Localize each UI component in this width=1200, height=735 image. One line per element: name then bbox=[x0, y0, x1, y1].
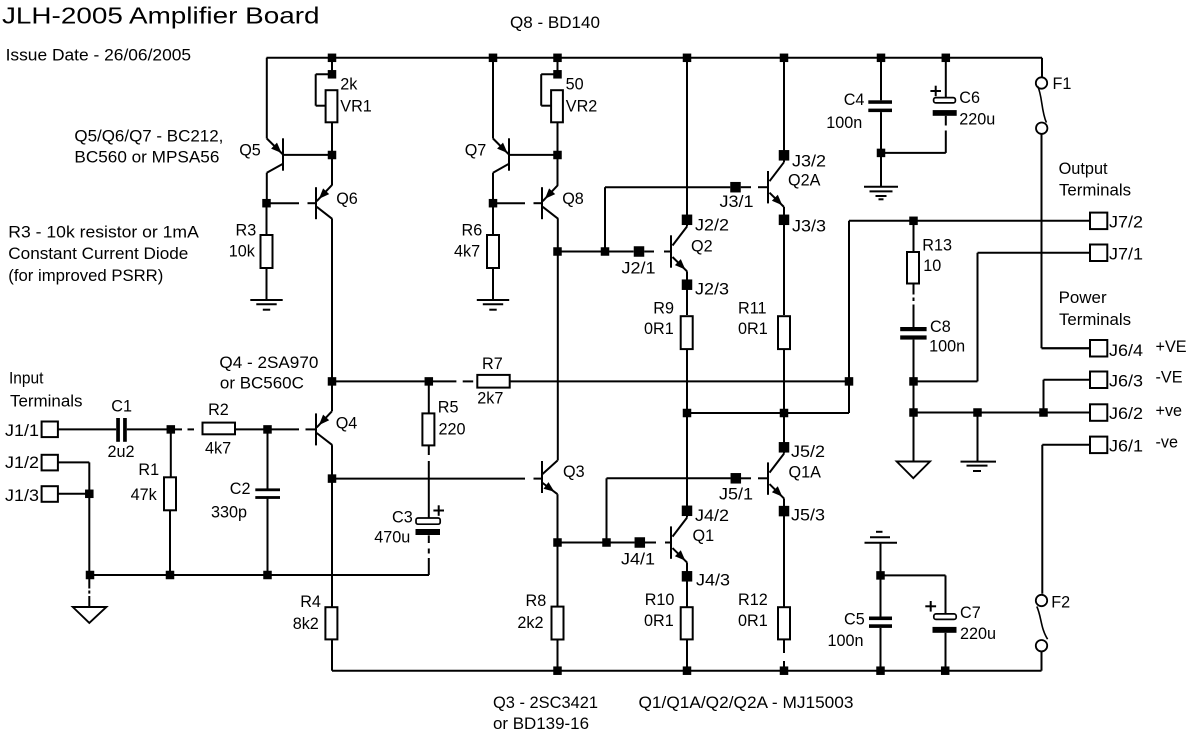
wire C1 to R1 node bbox=[127, 428, 171, 430]
svg-text:100n: 100n bbox=[929, 338, 965, 356]
fuse F2 bottom circle bbox=[1036, 640, 1047, 651]
label VR2 value 50 bbox=[566, 75, 584, 93]
junction on top rail at VR2 top bbox=[553, 54, 562, 63]
junction on top rail at Q2 collector bbox=[683, 54, 692, 63]
svg-text:VR1: VR1 bbox=[340, 97, 372, 115]
capacitor C4 plates bbox=[868, 100, 892, 112]
svg-text:50: 50 bbox=[566, 75, 584, 93]
wire J3/1 to Q2A base segments bbox=[741, 186, 768, 188]
label R4 value 8k2 bbox=[293, 615, 319, 633]
resistor R8 body bbox=[552, 607, 564, 640]
wire output row to J4/2 bbox=[686, 413, 688, 518]
node bottom rail junction under C7 bbox=[941, 666, 950, 675]
pin pad J3/1 bbox=[730, 182, 741, 193]
node drive node junction at Q2 base row bbox=[553, 247, 562, 256]
svg-text:Constant Current Diode: Constant Current Diode bbox=[8, 245, 188, 263]
label J4/2 bbox=[695, 507, 729, 525]
label R8 bbox=[526, 592, 547, 610]
wire Q4 collector down to Q3 base node bbox=[331, 445, 333, 479]
ground under R6 bbox=[477, 300, 509, 310]
note Q8 type bbox=[510, 14, 600, 32]
svg-text:J6/3: J6/3 bbox=[1109, 373, 1143, 391]
wire ground stub segments bbox=[88, 575, 90, 607]
svg-text:J4/1: J4/1 bbox=[621, 551, 655, 569]
svg-text:J2/1: J2/1 bbox=[622, 260, 656, 278]
svg-text:J3/1: J3/1 bbox=[720, 193, 754, 211]
wire C2 node to Q4 base segments bbox=[268, 428, 317, 430]
svg-text:0R1: 0R1 bbox=[738, 320, 768, 338]
wire Q2 emitter to J2/3 bbox=[686, 271, 688, 315]
wire J6/1 row and riser to F2 bbox=[1042, 445, 1090, 594]
node J2-row / Q2A-base-column junction bbox=[601, 247, 610, 256]
svg-text:J6/2: J6/2 bbox=[1109, 405, 1143, 423]
svg-text:J3/3: J3/3 bbox=[792, 218, 826, 236]
wire J5/3 to R12 bbox=[783, 515, 785, 607]
svg-text:10: 10 bbox=[923, 257, 941, 275]
wire Q1 base row bbox=[607, 542, 635, 544]
label -VE bbox=[1156, 369, 1183, 387]
svg-text:R8: R8 bbox=[526, 592, 547, 610]
label R7 bbox=[482, 355, 503, 373]
wire C8 to ground node bbox=[913, 340, 915, 462]
label J5/1 bbox=[719, 486, 753, 504]
fuse F1 element bbox=[1038, 86, 1047, 122]
wire input ground riser bbox=[88, 462, 90, 575]
capacitor C2 plates bbox=[255, 488, 280, 499]
note Q3 type line2 bbox=[493, 715, 589, 733]
capacitor C6 plus sign bbox=[930, 86, 941, 97]
wire J1/2 to ground riser bbox=[58, 461, 89, 463]
transistor Q3 body bbox=[542, 461, 558, 495]
capacitor C3 plus sign bbox=[433, 505, 444, 516]
resistor R9 body bbox=[681, 316, 693, 349]
label C1 value 2u2 bbox=[108, 443, 135, 461]
wire Q3 base row bbox=[332, 478, 542, 480]
terminal square J6/4 bbox=[1090, 340, 1107, 357]
wire output row to J5/2 bbox=[783, 413, 785, 454]
fuse F1 bottom circle bbox=[1036, 123, 1047, 134]
svg-text:J7/2: J7/2 bbox=[1109, 214, 1143, 232]
wire J5/1 to Q1A base segments bbox=[741, 477, 768, 479]
label C7 bbox=[960, 604, 981, 622]
svg-text:220: 220 bbox=[439, 420, 466, 438]
svg-text:Q6: Q6 bbox=[336, 190, 358, 208]
wire Q6 collector down to R7 node bbox=[331, 219, 333, 382]
capacitor C8 plates bbox=[900, 327, 926, 340]
wire signal ground bus bbox=[90, 574, 430, 576]
label J4/1 bbox=[621, 551, 655, 569]
svg-text:Output: Output bbox=[1059, 160, 1108, 178]
wire small ground stub bbox=[977, 413, 979, 462]
wire C5 top stub bbox=[880, 575, 882, 616]
ground input earth triangle bbox=[73, 607, 107, 623]
note output transistors type bbox=[639, 694, 854, 712]
wire Q1A emitter to J5/3 bbox=[783, 498, 785, 515]
label R9 bbox=[653, 300, 674, 318]
svg-text:Q2: Q2 bbox=[691, 238, 713, 256]
label C8 bbox=[930, 318, 951, 336]
label R10 value 0R1 bbox=[644, 612, 674, 630]
resistor R5 body bbox=[422, 413, 434, 445]
junction on top rail at C4 top bbox=[877, 54, 886, 63]
pin pad J3/3 bbox=[779, 215, 790, 226]
svg-text:J5/1: J5/1 bbox=[719, 486, 753, 504]
terminal square J7/2 bbox=[1090, 213, 1107, 230]
label Q2 bbox=[691, 238, 713, 256]
node VR2 wiper junction bbox=[553, 70, 562, 79]
note R3 line2 bbox=[8, 245, 188, 263]
label Q6 bbox=[336, 190, 358, 208]
transistor Q7 body bbox=[493, 138, 509, 172]
svg-text:J5/2: J5/2 bbox=[791, 443, 825, 461]
node C1 / R1 junction bbox=[167, 425, 176, 434]
capacitor C7 plus sign bbox=[925, 601, 936, 612]
svg-text:J1/3: J1/3 bbox=[5, 487, 39, 505]
resistor R12 body bbox=[778, 607, 790, 639]
junction on top rail at VR1 top bbox=[328, 54, 337, 63]
svg-text:R3 - 10k resistor or 1mA: R3 - 10k resistor or 1mA bbox=[8, 224, 199, 242]
wire -V bottom rail bbox=[332, 670, 1042, 672]
label R3 value 10k bbox=[229, 243, 256, 261]
label J5/2 bbox=[791, 443, 825, 461]
label R7 value 2k7 bbox=[477, 389, 503, 407]
wire R5 to C3 segments bbox=[428, 445, 430, 518]
svg-text:R11: R11 bbox=[738, 300, 767, 318]
svg-text:R9: R9 bbox=[653, 300, 674, 318]
pin pad J4/1 bbox=[635, 537, 646, 548]
label F1 bbox=[1053, 75, 1072, 93]
svg-text:2k7: 2k7 bbox=[477, 389, 503, 407]
capacitor C3 bottom plate bbox=[416, 529, 441, 535]
svg-text:0R1: 0R1 bbox=[644, 612, 674, 630]
svg-text:+VE: +VE bbox=[1156, 338, 1187, 356]
svg-text:Q8 - BD140: Q8 - BD140 bbox=[510, 14, 600, 32]
svg-text:J6/4: J6/4 bbox=[1109, 342, 1143, 360]
svg-text:Q1A: Q1A bbox=[789, 464, 822, 482]
node Q5 base / VR1 junction bbox=[328, 151, 337, 160]
issue date text bbox=[6, 46, 192, 65]
svg-text:R6: R6 bbox=[462, 221, 483, 239]
node R13 junction on output row bbox=[909, 217, 918, 226]
svg-text:BC560 or MPSA56: BC560 or MPSA56 bbox=[74, 148, 219, 166]
node ground bus junction at R1 bbox=[166, 571, 175, 580]
node Q8 base / R6 junction bbox=[489, 199, 498, 208]
capacitor C6 bottom plate bbox=[933, 110, 957, 116]
label R1 value 47k bbox=[131, 486, 158, 504]
wire R7 node row to R5 bbox=[332, 380, 425, 382]
resistor R1 riser bbox=[170, 429, 172, 477]
label J4/3 bbox=[696, 572, 730, 590]
wire R12 to bottom rail segments bbox=[783, 640, 785, 671]
title text bbox=[2, 3, 320, 29]
svg-text:R13: R13 bbox=[922, 236, 952, 254]
svg-text:0R1: 0R1 bbox=[738, 612, 768, 630]
transistor Q1A body bbox=[768, 454, 784, 499]
svg-text:C2: C2 bbox=[230, 480, 251, 498]
terminal square J6/3 bbox=[1090, 372, 1107, 389]
wire drive node to J2/1 row bbox=[558, 251, 634, 253]
transistor Q8 body bbox=[542, 185, 558, 219]
wire Q1 emitter to J4/3 bbox=[686, 562, 688, 607]
wire F1 to J6/4 corner bbox=[1042, 134, 1091, 348]
label R12 bbox=[738, 591, 768, 609]
terminal square J1/1 bbox=[42, 422, 58, 438]
svg-text:J2/3: J2/3 bbox=[695, 281, 729, 299]
node Q6 base / R3 junction bbox=[262, 199, 271, 208]
pin pad J2/3 bbox=[682, 279, 693, 290]
transistor Q2A body bbox=[768, 162, 784, 207]
wire Q5 collector down bbox=[266, 173, 268, 204]
svg-text:Q2A: Q2A bbox=[788, 172, 821, 190]
node ground row junction at R13 column bbox=[909, 408, 918, 417]
svg-text:(for improved PSRR): (for improved PSRR) bbox=[8, 267, 163, 285]
label Q4 bbox=[336, 415, 358, 433]
svg-text:J6/1: J6/1 bbox=[1109, 438, 1143, 456]
node ground bus junction at riser bbox=[86, 571, 95, 580]
wire Q2A emitter to J3/3 bbox=[783, 207, 785, 225]
wire Q2A base row bbox=[605, 186, 730, 188]
label R4 bbox=[300, 593, 321, 611]
label R5 value 220 bbox=[439, 420, 466, 438]
svg-text:C3: C3 bbox=[392, 508, 413, 526]
ground under R3 bbox=[250, 300, 282, 310]
wire rail to C6 bbox=[945, 58, 947, 98]
ground earth triangle right bbox=[897, 462, 930, 479]
label C2 bbox=[230, 480, 251, 498]
ground under C4 bbox=[864, 187, 898, 200]
wire output node row bbox=[687, 412, 849, 414]
label J1/1 bbox=[5, 422, 39, 440]
svg-text:C7: C7 bbox=[960, 604, 981, 622]
wire R5 top stub bbox=[428, 381, 430, 413]
label C5 value 100n bbox=[828, 632, 864, 650]
label R8 value 2k2 bbox=[517, 614, 543, 632]
ground small earth right bbox=[961, 462, 997, 471]
label J6/2 bbox=[1109, 405, 1143, 423]
label J6/3 bbox=[1109, 373, 1143, 391]
transistor Q1 body bbox=[671, 518, 687, 563]
resistor R2 body bbox=[203, 423, 236, 435]
pin pad J5/1 bbox=[731, 473, 742, 484]
svg-text:100n: 100n bbox=[826, 114, 862, 132]
label Output Terminals bbox=[1059, 160, 1131, 199]
wire J2/1 to Q2 base segments bbox=[644, 251, 671, 253]
svg-text:J3/2: J3/2 bbox=[792, 153, 826, 171]
junction on top rail at Q7 emitter bbox=[489, 54, 498, 63]
node ground bus junction at C2 bbox=[263, 571, 272, 580]
label J7/2 bbox=[1109, 214, 1143, 232]
wire F2 to bottom rail corner bbox=[1041, 651, 1043, 670]
note Q3 type line1 bbox=[493, 694, 598, 712]
ground inverted above C5 bbox=[865, 532, 898, 543]
wire R11 to output node row bbox=[783, 349, 785, 413]
label C6 bbox=[959, 89, 980, 107]
svg-text:47k: 47k bbox=[131, 486, 158, 504]
wire R3 to ground bbox=[266, 268, 268, 300]
label C4 value 100n bbox=[826, 114, 862, 132]
node bottom rail junction under C5 bbox=[876, 666, 885, 675]
wire J4/1 to Q1 base segments bbox=[645, 542, 671, 544]
wire R13 top stub bbox=[913, 221, 915, 252]
note R3 line3 bbox=[8, 267, 163, 285]
capacitor C3 top plate bbox=[416, 518, 440, 524]
svg-text:Q5/Q6/Q7 - BC212,: Q5/Q6/Q7 - BC212, bbox=[74, 128, 223, 146]
capacitor C1 plates bbox=[116, 418, 127, 442]
label R3 bbox=[236, 221, 257, 239]
svg-text:10k: 10k bbox=[229, 243, 256, 261]
terminal square J7/1 bbox=[1090, 245, 1107, 262]
wire rail to Q7 emitter bbox=[492, 58, 494, 139]
wire rail to J3/2 bbox=[783, 58, 785, 162]
label J1/2 bbox=[5, 454, 39, 472]
label C3 bbox=[392, 508, 413, 526]
node VR1 wiper junction bbox=[328, 70, 337, 79]
wire VR1 node to Q6 emitter bbox=[331, 155, 333, 186]
label R11 value 0R1 bbox=[738, 320, 768, 338]
wire Q4 emitter up to R7 node bbox=[331, 381, 333, 411]
wire C4 to ground node bbox=[880, 112, 882, 187]
pin pad J2/1 bbox=[634, 246, 645, 257]
wire R2 to C2 node bbox=[236, 428, 268, 430]
svg-text:Q8: Q8 bbox=[562, 190, 584, 208]
node output row junction under R9 bbox=[683, 409, 692, 418]
resistor R4 body bbox=[325, 607, 337, 639]
node C5 / C7 top junction bbox=[876, 571, 885, 580]
wire R13 to C8 segments bbox=[913, 284, 915, 328]
wire Q8 collector down to Q3 collector bbox=[557, 219, 559, 461]
node ground row junction at J6/3 riser bbox=[1039, 408, 1048, 417]
capacitor C6 top plate bbox=[934, 98, 956, 103]
fuse F2 element bbox=[1037, 607, 1048, 640]
label J1/3 bbox=[5, 487, 39, 505]
note Q5/Q6/Q7 line1 bbox=[74, 128, 223, 146]
wire Q6 base segments bbox=[267, 202, 316, 204]
wire R10 to bottom rail bbox=[686, 639, 688, 670]
svg-text:Terminals: Terminals bbox=[1059, 311, 1131, 329]
wire R1 to ground bus bbox=[169, 510, 171, 575]
svg-text:Q4 - 2SA970: Q4 - 2SA970 bbox=[219, 354, 318, 372]
svg-text:C1: C1 bbox=[111, 397, 132, 415]
wire VR1 bottom to Q5 base node bbox=[331, 122, 333, 155]
wire ground row to J6/2 bbox=[914, 412, 1091, 414]
svg-text:Terminals: Terminals bbox=[1059, 182, 1131, 200]
node output row junction under R11 bbox=[780, 409, 789, 418]
label J5/3 bbox=[791, 507, 825, 525]
wire vertical linking Q1A base row to Q1 base row bbox=[606, 478, 608, 542]
svg-text:4k7: 4k7 bbox=[454, 243, 480, 261]
svg-text:F2: F2 bbox=[1051, 594, 1070, 612]
node R5 branch junction bbox=[425, 377, 434, 386]
resistor R10 body bbox=[681, 607, 693, 639]
svg-text:330p: 330p bbox=[211, 504, 247, 522]
label J2/2 bbox=[695, 217, 729, 235]
wire VR1 wiper loop bbox=[316, 74, 332, 106]
svg-text:4k7: 4k7 bbox=[205, 439, 231, 457]
svg-text:Input: Input bbox=[9, 370, 44, 388]
label J7/1 bbox=[1109, 246, 1143, 264]
svg-text:C5: C5 bbox=[844, 611, 865, 629]
pin pad J4/2 bbox=[682, 506, 693, 517]
wire Q3 emitter down bbox=[557, 494, 559, 606]
svg-text:C6: C6 bbox=[959, 89, 980, 107]
wire VR2 wiper loop bbox=[541, 74, 557, 106]
label +VE bbox=[1156, 338, 1187, 356]
svg-text:2k: 2k bbox=[340, 76, 358, 94]
label R11 bbox=[738, 300, 767, 318]
wire Q7 base to VR2 node bbox=[509, 154, 558, 156]
note Q4 type line2 bbox=[220, 374, 304, 392]
svg-text:J4/2: J4/2 bbox=[695, 507, 729, 525]
wire J7/1 row bbox=[978, 252, 1091, 254]
node ground row junction at small ground bbox=[973, 408, 982, 417]
wire inverted ground to C5 node bbox=[880, 543, 882, 576]
svg-text:Terminals: Terminals bbox=[10, 392, 83, 410]
wire Q6-base node to R3 bbox=[266, 203, 268, 235]
label R2 bbox=[208, 401, 229, 419]
transistor Q6 body bbox=[316, 185, 332, 219]
wire J6/3 row and riser bbox=[1044, 380, 1091, 413]
label VR1 value 2k bbox=[340, 76, 358, 94]
transistor Q5 body bbox=[267, 138, 283, 172]
svg-text:2u2: 2u2 bbox=[108, 443, 135, 461]
note Q4 type line1 bbox=[219, 354, 318, 372]
svg-text:R2: R2 bbox=[208, 401, 229, 419]
svg-text:Q5: Q5 bbox=[239, 142, 261, 160]
node Q3 emitter junction bbox=[553, 538, 562, 547]
label C1 bbox=[111, 397, 132, 415]
svg-text:R4: R4 bbox=[300, 593, 321, 611]
svg-text:Q3 - 2SC3421: Q3 - 2SC3421 bbox=[493, 694, 598, 712]
svg-text:J1/1: J1/1 bbox=[5, 422, 39, 440]
svg-text:VR2: VR2 bbox=[566, 97, 598, 115]
node bottom rail junction under R8 bbox=[553, 666, 562, 675]
label F2 bbox=[1051, 594, 1070, 612]
label Q7 bbox=[465, 141, 487, 159]
wire Q4 collector node through bus to R4 bbox=[331, 479, 333, 607]
label -ve bbox=[1156, 434, 1179, 452]
svg-text:F1: F1 bbox=[1053, 75, 1072, 93]
node bottom rail junction under R12 bbox=[780, 666, 789, 675]
label Q5 bbox=[239, 142, 261, 160]
label J3/3 bbox=[792, 218, 826, 236]
wire C2 to ground bus bbox=[267, 498, 269, 575]
wire Q3 emitter to Q1-base column bbox=[558, 542, 607, 544]
label R6 bbox=[462, 221, 483, 239]
svg-text:470u: 470u bbox=[374, 529, 410, 547]
label C6 value 220u bbox=[959, 111, 995, 129]
wire C5 node to C7 bbox=[881, 575, 946, 614]
terminal square J1/2 bbox=[42, 455, 58, 471]
wire +V top rail bbox=[267, 57, 1043, 59]
resistor R3 body bbox=[261, 235, 273, 268]
wire VR2 top stub bbox=[557, 58, 559, 75]
label R6 value 4k7 bbox=[454, 243, 480, 261]
wire Q8-base node to R6 bbox=[492, 203, 494, 235]
svg-text:100n: 100n bbox=[828, 632, 864, 650]
wire Q5 base to VR1 node bbox=[283, 154, 332, 156]
svg-text:J7/1: J7/1 bbox=[1109, 246, 1143, 264]
label Q3 bbox=[563, 463, 585, 481]
label C7 value 220u bbox=[960, 625, 996, 643]
label R9 value 0R1 bbox=[644, 320, 674, 338]
resistor R6 body bbox=[487, 235, 499, 268]
label Q1 bbox=[693, 527, 715, 545]
node Q4 collector / Q3 base junction bbox=[328, 474, 337, 483]
node Q3 emitter row junction bbox=[602, 538, 611, 547]
svg-text:R10: R10 bbox=[645, 591, 675, 609]
transistor Q4 body bbox=[316, 411, 332, 445]
resistor R7 body bbox=[477, 375, 509, 388]
